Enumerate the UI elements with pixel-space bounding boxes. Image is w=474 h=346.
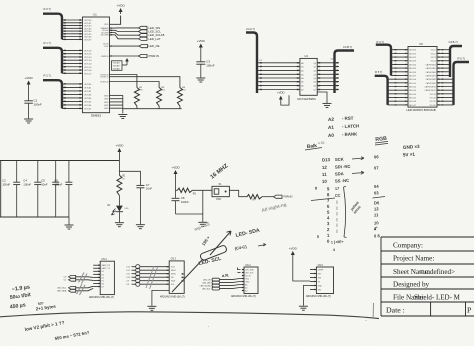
wire CN3 gnd [152,290,169,306]
svg-text:OUT-G1: OUT-G1 [84,54,92,56]
svg-text:SDI -NC: SDI -NC [335,164,351,170]
svg-text:+VDD: +VDD [171,166,180,170]
svg-text:OE-CHN: OE-CHN [101,35,109,37]
svg-text:100nF: 100nF [34,102,42,106]
svg-text:OUT-R3: OUT-R3 [84,28,92,30]
svg-text:A1: A1 [245,286,247,289]
svg-text:+VDD: +VDD [277,91,285,95]
wire CN4 top stubs [238,268,241,270]
ground (osc) [198,222,207,226]
svg-text:BLK-R1: BLK-R1 [409,53,416,55]
svg-text:SCK: SCK [335,157,344,162]
wire U1 data/clk/le/oe pins to tags [110,28,112,29]
svg-text:D4: D4 [101,277,103,279]
svg-text:|: | [337,217,338,221]
svg-text:GND: GND [318,285,323,287]
ground (cap bank) [65,225,74,229]
wire [175,176,177,198]
svg-text:R 5 7): R 5 7) [375,70,382,74]
svg-text:+VDD: +VDD [117,4,126,8]
resistor R3 [157,88,162,107]
svg-text:U1: U1 [93,13,97,17]
svg-text:OUT-B6: OUT-B6 [84,105,92,107]
node LED_OE tag [110,46,112,47]
svg-text:A1: A1 [301,66,303,69]
wire thick bus entry R2 [43,80,62,108]
svg-text:D11: D11 [127,274,130,276]
svg-text:OUT-B1: OUT-B1 [84,87,92,89]
svg-text:8: 8 [315,186,317,190]
wire osc ground rail [176,214,203,222]
svg-text:- RST: - RST [342,116,354,121]
wire thick bus entry into U4 [246,33,257,94]
svg-text:MOSI: MOSI [171,274,176,276]
wire CN2 stubs [93,264,100,266]
svg-text:MC74HC595N: MC74HC595N [297,97,315,101]
svg-text:A2: A2 [301,69,303,72]
svg-text:VDDAR: VDDAR [113,65,121,68]
annotation strike line [311,198,335,201]
svg-text:CN 4: CN 4 [245,265,251,267]
resistor R2 [134,88,139,107]
svg-text:U4: U4 [305,54,309,58]
annotation rotated box outline [200,245,228,261]
svg-text:LED_SCK: LED_SCK [245,272,254,274]
svg-text:+VDD: +VDD [25,76,34,80]
resistor R4 [177,88,182,107]
svg-text:C4 B 7): C4 B 7) [343,45,352,49]
svg-text:<undefined>: <undefined> [419,268,455,276]
svg-text:- LATCH: - LATCH [342,123,359,129]
svg-text:OUT-B3: OUT-B3 [84,94,92,96]
node LED tags into CN4 [212,278,220,281]
svg-text:BLK-G1: BLK-G1 [409,83,416,85]
power +VDD small arrow near VDDIO [125,58,129,62]
op-amp U1 DM633 LED driver IC body [83,17,110,113]
pencil slashes over CN2 wires [77,273,88,296]
svg-text:3V3: 3V3 [318,277,321,279]
svg-text:A0: A0 [245,283,247,286]
svg-text:Q2: Q2 [313,70,316,72]
node tag pair D0/D1 [69,275,76,278]
svg-text:R 4 7): R 4 7) [377,40,384,44]
svg-text:GND: GND [104,95,109,97]
svg-text:CATHODE7: CATHODE7 [426,74,436,77]
svg-text:OUT-R0: OUT-R0 [84,20,92,22]
svg-text:LED_LAT: LED_LAT [202,282,211,285]
svg-text:R 6 7): R 6 7) [458,57,465,61]
svg-text:ARDUINO-SHD-LB-L(T): ARDUINO-SHD-LB-L(T) [306,295,331,298]
wire bottom rail [0,216,69,218]
svg-text:Q0: Q0 [313,63,316,65]
svg-text:D13: D13 [322,157,331,162]
connector CN4 body [244,267,258,294]
svg-text:Project Name:: Project Name: [393,255,434,263]
svg-text:LED_SCL: LED_SCL [57,288,67,290]
svg-text:GND: GND [104,102,109,104]
wire R-EXT pins to resistor tops [110,75,137,88]
svg-text:A7: A7 [301,89,303,92]
svg-text:CC: CC [335,194,341,198]
svg-text:CATHODE5: CATHODE5 [426,67,436,70]
svg-text:LED_OE: LED_OE [149,44,160,48]
svg-text:12: 12 [322,165,328,170]
svg-text:100nF: 100nF [23,182,31,186]
svg-text:LED: LED [125,208,129,210]
svg-text:OUT-G3: OUT-G3 [84,60,92,62]
ground (U4) [323,103,332,107]
svg-text:VCC1: VCC1 [431,50,436,52]
svg-text:GND: GND [104,105,109,107]
svg-text:VCC15: VCC15 [430,101,436,103]
connector J3 pin pads [64,83,66,84]
svg-text:C4 B 7): C4 B 7) [449,40,458,44]
svg-text:A2: A2 [245,289,247,292]
svg-text:~: ~ [365,319,367,323]
svg-text:U5: U5 [419,42,423,46]
wire thick bus exit from U4 [335,51,355,94]
svg-text:CATHODE9: CATHODE9 [426,82,436,85]
svg-text:VCC16: VCC16 [430,105,436,107]
svg-text:A2: A2 [328,117,335,122]
svg-text:GND: GND [104,99,109,101]
wire resistor bottom rail [123,108,182,110]
ground (below U1) [118,115,127,119]
svg-text:ARDUINO-SHD-LB-L(T): ARDUINO-SHD-LB-L(T) [89,296,114,299]
svg-text:11: 11 [322,172,327,177]
svg-text:OUT-R6: OUT-R6 [84,37,92,39]
connector J1 pin pads [64,19,66,20]
title block frame [381,237,474,316]
svg-text:OUT-G4: OUT-G4 [84,63,92,65]
wire ground stub of cap bank [68,217,70,225]
svg-text:BLK-R2: BLK-R2 [409,57,416,59]
wire GND pins of U1 to ground rail [110,94,123,96]
svg-text:OUT-R1: OUT-R1 [84,23,92,25]
svg-text:D0: D0 [374,200,380,205]
svg-text:SS -NC: SS -NC [335,178,349,184]
svg-text:17: 17 [335,187,339,191]
svg-text:BLK-R6: BLK-R6 [409,72,416,74]
svg-text:OUT-B4: OUT-B4 [84,98,92,100]
wire U5 left ribbons [391,49,408,51]
node tag pair LED_SCL/LED_SDA [69,286,76,289]
svg-text:BLK-R3: BLK-R3 [409,61,416,63]
svg-text:PWM IN: PWM IN [284,196,293,199]
node PWM_IN tag (U1) [110,55,112,56]
svg-text:Q5: Q5 [313,82,316,84]
CN3 left pads and bullet nets [136,265,140,269]
wire +VDD to U4 VCC pin [281,95,289,105]
wire tag pair A to CN2 [76,276,94,279]
svg-text:Company:: Company: [393,242,423,250]
annotation tall bracket [344,186,347,237]
svg-text:0: 0 [317,235,319,239]
svg-text:D3: D3 [101,274,103,276]
CN2 pin rows [98,265,100,266]
svg-text:OUT-B2: OUT-B2 [84,91,92,93]
svg-text:LED_SDA: LED_SDA [245,268,254,271]
svg-text:D12: D12 [127,270,130,272]
svg-text:BLK-R4: BLK-R4 [409,64,416,66]
svg-text:UART_RX: UART_RX [101,264,111,267]
wire U1 VDD pin to +VDD [110,16,121,25]
svg-text:LED_OE: LED_OE [203,280,211,282]
connector CN2 body [100,261,114,294]
node LED_SCL tag [139,30,148,33]
node LED_LAT tag [139,37,148,40]
svg-text:VCC13: VCC13 [430,94,436,96]
connector J2 pin pads [64,50,66,51]
capacitor C1 100nF [24,100,32,102]
svg-text:Designed by: Designed by [393,281,430,289]
svg-text:LED_LAT: LED_LAT [149,37,161,41]
wire +VDD to CN5 [293,257,310,281]
svg-text:CATHODE11: CATHODE11 [425,89,436,92]
svg-text:UART_TX: UART_TX [101,267,110,270]
svg-text:A3: A3 [301,73,303,76]
svg-text:10nF: 10nF [146,187,153,191]
svg-text:Q7: Q7 [313,90,316,92]
svg-text:|: | [337,223,338,227]
svg-text:10nF: 10nF [41,182,48,186]
svg-text:A1: A1 [328,125,335,130]
svg-text:CATHODE10: CATHODE10 [424,86,435,89]
svg-text:SDA: SDA [335,171,344,176]
ground (D1) [115,223,124,227]
op-amp U4 74HC595 body [300,58,317,95]
svg-text:VCC4: VCC4 [431,61,436,63]
svg-text:CATHODE4: CATHODE4 [426,63,436,66]
capacitor C8 100nF (osc) [172,197,180,199]
ground (CN5) [299,306,308,310]
svg-text:R 0 7): R 0 7) [44,7,51,11]
svg-text:1 ]+0E+: 1 ]+0E+ [331,240,344,245]
node LED_SIN tag [139,26,148,29]
wire left edge vertical [0,161,2,218]
svg-text:|: | [337,200,338,204]
svg-text:100nF: 100nF [54,182,62,186]
wire [118,196,120,206]
svg-text:BLK-G0: BLK-G0 [409,79,416,81]
svg-text:a 16:: a 16: [318,141,326,145]
ground (CN3) [147,306,156,310]
svg-text:|: | [337,212,338,216]
capacitor C7 10nF [136,184,144,186]
svg-text:D13: D13 [127,267,130,269]
capacitor C6 100nF [68,161,70,183]
ground (C3) [196,78,205,82]
wire thick bus entry R0 [43,14,62,40]
wire U5 right ribbons [437,49,450,51]
svg-text:R 2 7): R 2 7) [44,74,51,78]
svg-text:OUT-R4: OUT-R4 [84,31,92,33]
svg-text:VDDAB: VDDAB [113,68,121,71]
svg-text:BLK-G7: BLK-G7 [409,105,416,107]
connector CN5 body [316,267,333,294]
svg-text:CN 2: CN 2 [102,259,108,261]
ground (C7) [136,225,145,229]
svg-text:PWM IN: PWM IN [101,56,109,58]
svg-text:D5: D5 [101,280,103,282]
svg-text:CN 3: CN 3 [171,259,177,261]
svg-text:GND: GND [245,281,250,283]
wire [118,154,120,175]
svg-text:+VDD: +VDD [289,247,298,251]
svg-text:100nF: 100nF [2,182,10,186]
oscillator X1 body [212,186,229,196]
svg-text:VDDAG: VDDAG [113,62,121,65]
annotation pencil tick near date row [372,303,374,317]
svg-text:OUT-G5: OUT-G5 [84,67,92,69]
svg-text:BLK-G2: BLK-G2 [409,87,416,89]
svg-text:R 1 7): R 1 7) [44,41,51,45]
pencil slashes over CN3 wires [146,266,158,289]
capacitor C3 100nF [196,61,205,63]
svg-text:A6: A6 [301,85,303,88]
wire U4 GND pin to ground [317,92,327,103]
resistor R1 [117,175,122,195]
svg-text:BLK-G4: BLK-G4 [409,94,416,96]
svg-text:OUT-R2: OUT-R2 [84,26,92,28]
svg-text:R-EXT-B: R-EXT-B [101,81,110,83]
capacitor block VDDIO rect on U1 [112,61,123,71]
svg-text:BLK-G3: BLK-G3 [409,90,416,92]
svg-text:VCC14: VCC14 [430,98,436,100]
svg-text:a.R.: a.R. [222,272,230,278]
svg-text:D8: D8 [127,284,129,286]
svg-text:DM633: DM633 [91,114,101,118]
svg-text:- BANK: - BANK [342,131,358,137]
svg-text:LED_SCL: LED_SCL [202,289,210,291]
svg-text:BLK-G5: BLK-G5 [409,98,416,100]
svg-text:VDD: VDD [104,24,109,26]
svg-text:100nF: 100nF [206,63,214,67]
svg-text:-: - [208,324,209,328]
svg-text:5V ×1: 5V ×1 [403,152,416,158]
svg-text:10: 10 [322,179,328,184]
svg-text:D7: D7 [101,286,103,288]
svg-text:SD_IN: SD_IN [245,275,251,277]
svg-text:Q6: Q6 [313,86,316,88]
svg-text:D10: D10 [127,277,130,279]
svg-text:PWM IN: PWM IN [149,54,159,58]
ground (C1) [24,119,33,123]
svg-text:CATHODE8: CATHODE8 [426,78,436,81]
svg-text:P: P [467,306,472,315]
svg-text:A0: A0 [328,133,335,138]
annotation pencil arrow stroke [172,231,231,292]
svg-text:IOUT: IOUT [104,46,110,48]
capacitor C4 100nF [37,161,39,183]
svg-text:ARDUINO-SHD-LB-L(T): ARDUINO-SHD-LB-L(T) [231,295,256,298]
svg-text:OUT-G0: OUT-G0 [84,50,92,52]
svg-text:GND: GND [104,108,109,110]
wire thick bus entry R1 [43,48,62,73]
wire osc input [176,189,178,191]
resistor R7 (osc out series) [247,195,262,199]
svg-text:MISO: MISO [171,270,176,272]
svg-text:OUT-B7: OUT-B7 [84,108,92,110]
svg-text:D2: D2 [101,271,103,273]
svg-text:Q4: Q4 [313,78,316,80]
svg-text:OUT-G7: OUT-G7 [84,73,92,75]
svg-text:BLK-R7: BLK-R7 [409,75,416,77]
svg-text:+VDD: +VDD [197,39,206,43]
svg-text:IOREF: IOREF [318,269,325,271]
svg-text:D9: D9 [127,281,129,283]
wire bus U4 left ribbon [257,62,300,64]
svg-text:+VDD: +VDD [115,144,124,148]
wire bus U4 right ribbon [317,62,339,64]
svg-text:A4: A4 [301,77,303,80]
capacitor C5 10nF [55,161,57,183]
wire group R0 ribbon to U1 [62,19,83,21]
svg-text:LED MATRIX 8X8 RGB: LED MATRIX 8X8 RGB [406,108,435,112]
annotation long pencil line [0,312,379,319]
svg-text:BLK-R0: BLK-R0 [409,50,416,52]
wire crystal gnd stub [202,190,204,214]
svg-text:Q3: Q3 [313,74,316,76]
wire [28,87,30,101]
wire tag pair B to CN2 [76,286,94,288]
wire [118,212,120,223]
svg-text:VCC3: VCC3 [431,57,436,59]
svg-text:CATHODE6: CATHODE6 [426,71,436,74]
resistor R5 (pullup to osc) [177,188,192,192]
svg-text:OUT-R5: OUT-R5 [84,34,92,36]
svg-text:OUT-G2: OUT-G2 [84,57,92,59]
svg-text:|: | [337,229,338,233]
svg-text:100nF: 100nF [181,200,189,204]
wire group R1 ribbon to U1 [62,49,83,51]
wire CN5 gnd [303,286,310,306]
svg-text:4: 4 [333,248,335,252]
LED D1 [116,206,123,212]
svg-text:C4 A 7): C4 A 7) [246,27,255,31]
capacitor C2 100nF [16,161,18,183]
svg-text:D6: D6 [101,283,103,285]
wire C7 branch [119,171,140,185]
svg-text:LED_SCLK8: LED_SCLK8 [200,286,211,288]
svg-text:R-EXT-G: R-EXT-G [100,77,109,79]
svg-text:OUT-G6: OUT-G6 [84,70,92,72]
svg-text:A5: A5 [301,81,303,84]
svg-text:OUT-R7: OUT-R7 [84,39,92,41]
svg-text:0 8: 0 8 [374,233,381,238]
svg-text:BLK-G6: BLK-G6 [409,101,416,103]
op-amp U5 LED matrix body [408,47,437,108]
svg-text:SCL: SCL [171,284,175,286]
wire [200,50,202,62]
svg-text:LED_SDA: LED_SDA [57,290,67,293]
svg-text:Q1: Q1 [313,67,316,69]
svg-text:OUT-B0: OUT-B0 [84,84,92,86]
svg-text:|: | [337,206,338,210]
svg-text:Shield- LED- M: Shield- LED- M [414,293,461,301]
svg-text:OUT-B5: OUT-B5 [84,101,92,103]
svg-text:OSC: OSC [216,198,221,201]
wire +V top rail [0,160,119,162]
wire group R2 ribbon to U1 [62,83,83,85]
svg-text:BLK-R5: BLK-R5 [409,68,416,70]
node LED_SCLK8 tag [139,34,148,37]
svg-text:Date :: Date : [386,306,405,315]
wire tags to CN4 [220,279,243,280]
wire [262,196,274,198]
svg-text:ARDUINO-SHD-LB-L(T): ARDUINO-SHD-LB-L(T) [160,296,185,299]
svg-text:VCC2: VCC2 [431,53,436,55]
